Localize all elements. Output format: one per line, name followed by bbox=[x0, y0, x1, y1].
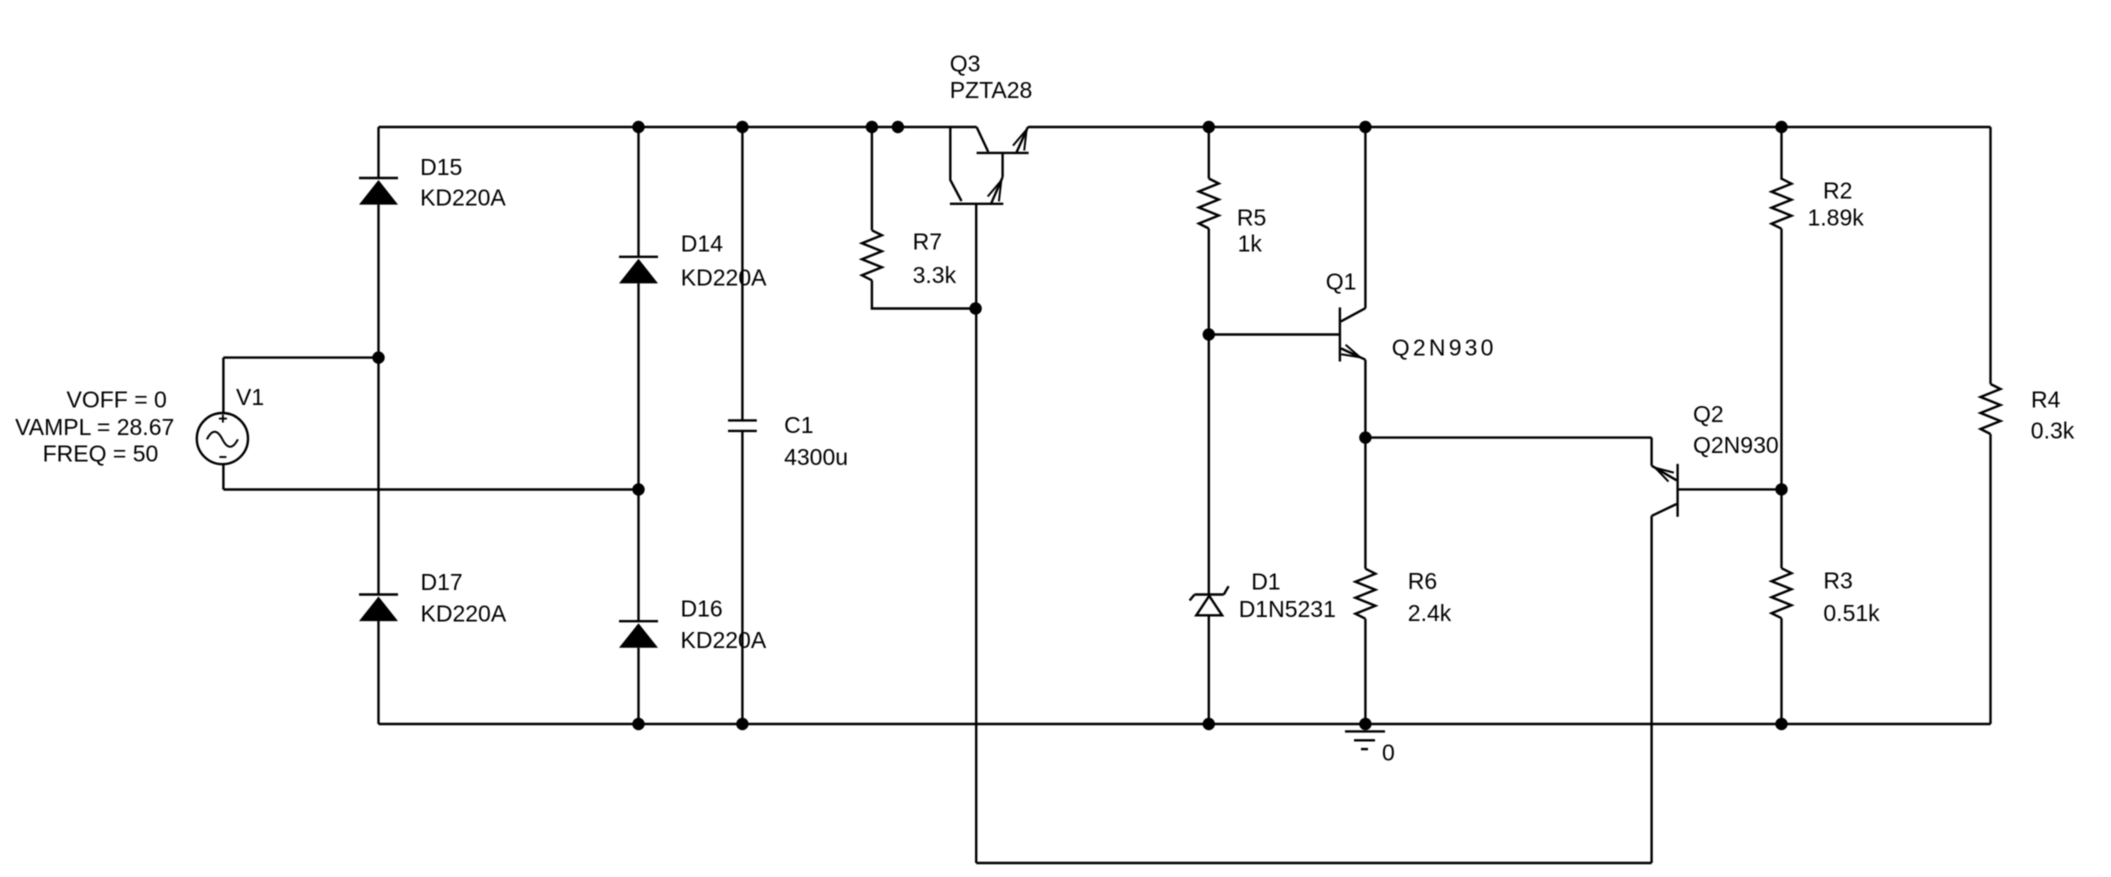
wire bottom rail bbox=[379, 723, 1991, 725]
svg-text:0: 0 bbox=[1382, 740, 1395, 766]
svg-text:KD220A: KD220A bbox=[681, 264, 767, 290]
wire up to Q2 collector bbox=[1650, 516, 1652, 863]
zener diode D1 D1N5231 bbox=[1190, 586, 1229, 615]
junction top rail / R5 bbox=[1203, 121, 1215, 133]
wire R6 bottom lead bbox=[1364, 619, 1366, 724]
svg-text:Q2: Q2 bbox=[1693, 401, 1724, 427]
svg-text:R4: R4 bbox=[2031, 387, 2061, 413]
wire below D17 bbox=[377, 621, 379, 724]
node divider R2/R3 bbox=[1775, 483, 1787, 495]
wire V1 top lead bbox=[222, 358, 224, 414]
AC voltage source V1 bbox=[197, 413, 248, 464]
node R5 / D1 / Q1 base bbox=[1203, 328, 1215, 340]
wire R2 top lead bbox=[1780, 127, 1782, 180]
wire R5 bottom lead bbox=[1208, 229, 1210, 335]
resistor R4 bbox=[1981, 384, 2001, 434]
svg-text:1.89k: 1.89k bbox=[1808, 205, 1865, 231]
wire R4 top lead bbox=[1989, 127, 1991, 384]
svg-text:R7: R7 bbox=[913, 229, 942, 255]
junction top rail / D14 branch bbox=[632, 121, 644, 133]
svg-text:VOFF = 0: VOFF = 0 bbox=[67, 387, 167, 413]
transistor Q3 (Darlington PZTA28): output device bbox=[977, 127, 1029, 153]
node Q1/Q2 emitters / R6 bbox=[1359, 431, 1371, 443]
wire V1 bottom lead bbox=[222, 464, 224, 489]
diode D14 bbox=[619, 257, 658, 284]
wire D1 bottom lead bbox=[1208, 615, 1210, 724]
svg-text:R6: R6 bbox=[1408, 568, 1437, 594]
diode D17 bbox=[359, 595, 398, 622]
wire bottom feedback run bbox=[976, 862, 1651, 864]
svg-text:C1: C1 bbox=[784, 412, 813, 438]
svg-text:0.3k: 0.3k bbox=[2031, 418, 2075, 444]
svg-text:R5: R5 bbox=[1237, 204, 1266, 230]
svg-text:Q3: Q3 bbox=[950, 51, 981, 77]
svg-text:Q2N930: Q2N930 bbox=[1392, 334, 1497, 360]
transistor Q3 driver section bbox=[950, 127, 1003, 204]
wire R7 bottom to Q3 base node bbox=[872, 280, 976, 308]
svg-text:Q2N930: Q2N930 bbox=[1693, 432, 1779, 458]
junction top rail / R7 bbox=[866, 121, 878, 133]
junction bottom rail / R3 bbox=[1775, 718, 1787, 730]
svg-text:0.51k: 0.51k bbox=[1823, 600, 1880, 626]
node V1 minus junction bbox=[632, 483, 644, 495]
svg-text:D17: D17 bbox=[421, 569, 463, 595]
junction top rail / R2 bbox=[1775, 121, 1787, 133]
svg-text:V1: V1 bbox=[236, 384, 264, 410]
svg-text:KD220A: KD220A bbox=[420, 185, 506, 211]
resistor R5 bbox=[1199, 179, 1219, 229]
wire R2 bottom lead bbox=[1780, 229, 1782, 490]
diode D16 bbox=[619, 621, 658, 648]
node R7 / Q3 base junction bbox=[969, 302, 981, 314]
svg-text:D15: D15 bbox=[420, 154, 462, 180]
svg-text:KD220A: KD220A bbox=[681, 627, 767, 653]
wire between D15 and D17 bbox=[377, 205, 379, 595]
wire C1 top lead bbox=[741, 127, 743, 420]
wire Q2 emitter lead bbox=[1650, 438, 1652, 466]
resistor R3 bbox=[1772, 568, 1792, 618]
resistor R6 bbox=[1355, 569, 1375, 619]
svg-text:D16: D16 bbox=[681, 596, 723, 622]
svg-text:4300u: 4300u bbox=[784, 444, 848, 470]
wire V1 minus to bridge node bbox=[223, 488, 638, 490]
wire emitter bus to Q2 bbox=[1365, 436, 1651, 438]
svg-text:Q1: Q1 bbox=[1326, 269, 1357, 295]
diode D15 bbox=[359, 178, 398, 205]
junction bottom rail / D16 branch bbox=[632, 718, 644, 730]
wire R3 bottom lead bbox=[1780, 618, 1782, 724]
wire R6 top lead bbox=[1364, 438, 1366, 569]
wire Q1 emitter down bbox=[1364, 360, 1366, 438]
wire R3 top lead bbox=[1780, 489, 1782, 568]
svg-text:D14: D14 bbox=[681, 230, 723, 256]
node V1 plus junction bbox=[372, 351, 384, 363]
wire D14 branch upper bbox=[637, 127, 639, 257]
wire top rail left segment (raw DC rail) bbox=[379, 126, 977, 128]
svg-text:D1N5231: D1N5231 bbox=[1239, 596, 1336, 622]
transistor Q2 Q2N930 (mirrored) bbox=[1652, 464, 1678, 517]
wire below D16 bbox=[637, 648, 639, 724]
svg-text:FREQ = 50: FREQ = 50 bbox=[43, 441, 159, 467]
svg-text:KD220A: KD220A bbox=[421, 601, 507, 627]
junction top rail / C1 branch bbox=[736, 121, 748, 133]
wire top rail right segment (output rail) bbox=[1028, 126, 1991, 128]
wire V1 plus to bridge node bbox=[223, 356, 378, 358]
junction bottom rail / D1 bbox=[1203, 718, 1215, 730]
svg-text:D1: D1 bbox=[1251, 568, 1280, 594]
wire R7 top lead bbox=[871, 127, 873, 230]
wire Q2 base to divider bbox=[1678, 488, 1782, 490]
ground 0 symbol bbox=[1345, 731, 1385, 749]
svg-text:2.4k: 2.4k bbox=[1408, 600, 1452, 626]
wire Q3 base down (crosses bottom rail) bbox=[975, 205, 977, 863]
wire down to D1 bbox=[1208, 335, 1210, 595]
wire C1 bottom lead bbox=[741, 431, 743, 724]
svg-text:PZTA28: PZTA28 bbox=[950, 77, 1033, 103]
capacitor C1 bbox=[728, 420, 757, 431]
wire Q1 collector to rail bbox=[1364, 127, 1366, 308]
wire Q1 base bbox=[1209, 333, 1340, 335]
junction bottom rail / C1 branch bbox=[736, 718, 748, 730]
junction top rail / Q1 collector bbox=[1359, 121, 1371, 133]
wire R5 top lead bbox=[1208, 127, 1210, 179]
junction top rail dot bbox=[892, 121, 904, 133]
wire D15 branch upper bbox=[377, 127, 379, 178]
svg-text:R3: R3 bbox=[1823, 567, 1852, 593]
svg-text:3.3k: 3.3k bbox=[913, 262, 957, 288]
svg-text:1k: 1k bbox=[1238, 231, 1263, 257]
svg-text:R2: R2 bbox=[1823, 177, 1852, 203]
wire between D14 and D16 bbox=[637, 283, 639, 621]
resistor R2 bbox=[1772, 179, 1792, 229]
wire R4 bottom lead bbox=[1989, 434, 1991, 724]
transistor Q1 Q2N930 bbox=[1340, 307, 1366, 361]
junction bottom rail / ground node bbox=[1359, 718, 1371, 730]
resistor R7 bbox=[862, 230, 882, 280]
svg-text:VAMPL = 28.67: VAMPL = 28.67 bbox=[15, 414, 174, 440]
